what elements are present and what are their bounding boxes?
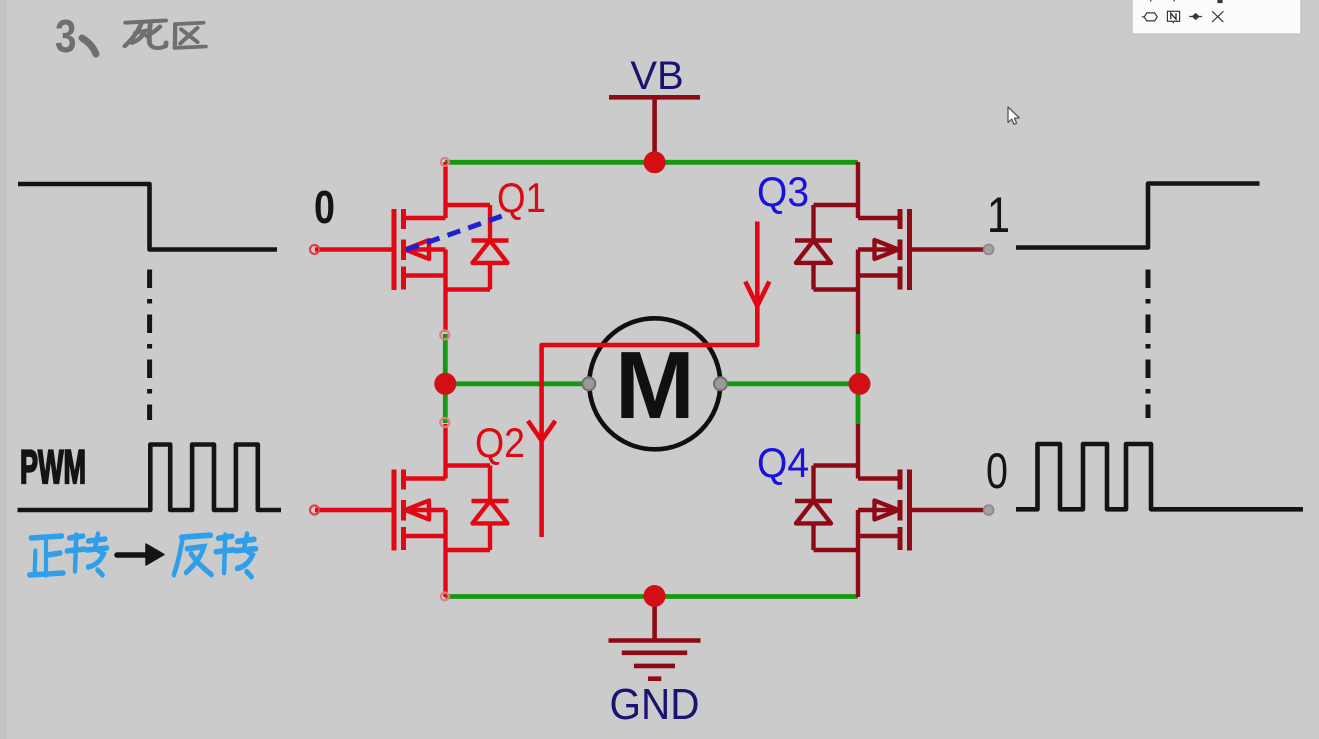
svg-text:GND: GND xyxy=(610,680,700,729)
svg-text:3: 3 xyxy=(55,10,77,62)
svg-text:1: 1 xyxy=(987,187,1010,243)
svg-text:Q1: Q1 xyxy=(497,174,546,221)
svg-text:Q4: Q4 xyxy=(757,439,809,486)
svg-text:M: M xyxy=(615,332,695,439)
svg-text:Q3: Q3 xyxy=(757,168,809,215)
svg-text:0: 0 xyxy=(314,181,335,233)
svg-text:Q2: Q2 xyxy=(475,419,525,466)
svg-text:VB: VB xyxy=(630,54,683,98)
svg-text:0: 0 xyxy=(986,443,1008,499)
svg-text:PWM: PWM xyxy=(20,440,86,493)
